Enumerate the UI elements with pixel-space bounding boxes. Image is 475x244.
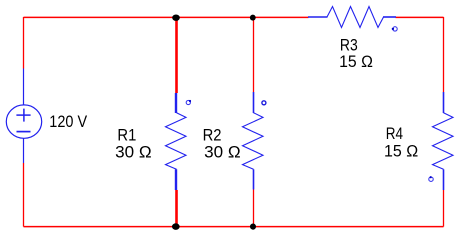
wire bottom rail [24,226,444,228]
resistor R4 [443,92,445,113]
resistor R2 [253,92,255,113]
resistor R1 [175,93,177,113]
resistor R3 [308,16,328,18]
wire left vertical to source [23,17,25,69]
wire from R3 to top-right corner [396,16,444,18]
junction node C (bottom left) [172,223,180,230]
wire node B to R2 [253,17,255,92]
svg-text:120 V: 120 V [49,113,87,131]
junction node B [250,15,256,21]
svg-text:15 Ω: 15 Ω [339,53,373,71]
pin marker R2 [262,101,266,105]
junction node D (bottom right) [250,224,256,230]
wire R1 to bottom rail (thick) [175,190,178,227]
voltage source V1 [6,69,41,164]
svg-text:R2: R2 [203,126,222,144]
wire node A to R1 (thick) [175,17,178,93]
pin marker R1 [186,100,190,104]
wire top from source to node A [24,16,177,18]
pin marker R3 [393,27,397,31]
svg-text:R4: R4 [386,125,403,143]
wire R2 to bottom rail [253,190,255,227]
wire top from node B to R3 [254,16,309,18]
svg-text:15 Ω: 15 Ω [384,143,418,161]
svg-text:30 Ω: 30 Ω [115,144,152,162]
wire right vertical to R4 [443,17,445,92]
wire R4 to bottom rail [443,190,445,227]
pin marker R4 [429,177,433,181]
svg-text:R1: R1 [117,126,136,144]
wire from source bottom to bottom-left corner [23,163,25,227]
wire top from node A to node B [177,16,254,18]
svg-text:R3: R3 [340,37,358,55]
svg-text:30 Ω: 30 Ω [204,144,241,162]
junction node A [172,15,180,21]
